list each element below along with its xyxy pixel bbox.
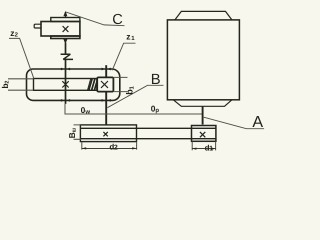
svg-text:z: z [126, 31, 130, 41]
svg-text:ш: ш [72, 127, 78, 132]
svg-text:C: C [112, 12, 123, 28]
svg-text:w: w [84, 110, 90, 116]
svg-text:B: B [151, 72, 161, 88]
svg-text:A: A [252, 114, 263, 131]
svg-text:p: p [155, 108, 159, 114]
svg-text:2: 2 [114, 145, 118, 152]
svg-text:2: 2 [5, 81, 11, 84]
svg-text:1: 1 [209, 145, 213, 152]
